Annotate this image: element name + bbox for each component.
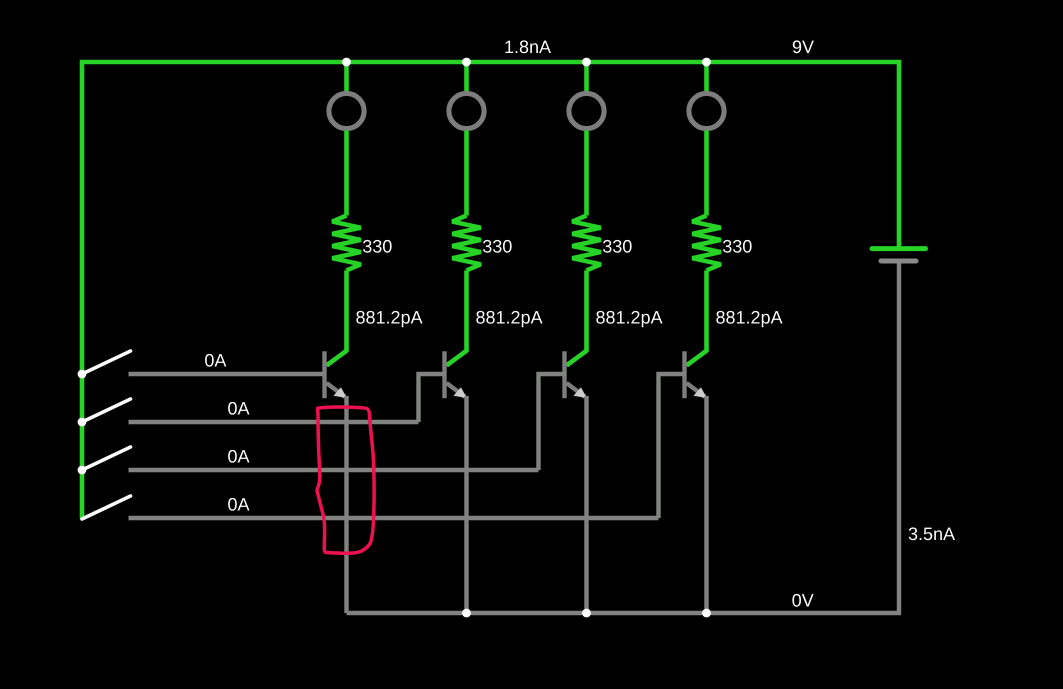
battery B1 9V long plate <box>872 246 926 251</box>
label current col2 881.2pA <box>476 311 542 327</box>
wire collector column 3 top <box>584 62 589 93</box>
junction top rail node col3 <box>582 58 591 67</box>
transistor Q1 base bar <box>322 351 326 398</box>
wire top rail 9V <box>82 62 899 519</box>
wire collector column 4 top <box>704 62 709 93</box>
junction top rail node col2 <box>462 58 471 67</box>
wire emitter Q3 down to bottom rail <box>584 396 588 613</box>
label current col1 881.2pA <box>356 311 422 327</box>
junction bottom rail node col3 <box>582 609 591 618</box>
label row1 current 0A <box>205 354 226 367</box>
battery B1 short plate <box>881 259 916 264</box>
label current col4 881.2pA <box>716 311 782 327</box>
wire collector column 2 top <box>464 62 469 93</box>
wire LED D3 to resistor R3 <box>584 131 589 216</box>
transistor Q1 emitter arrow <box>334 387 347 398</box>
label voltage 0V <box>792 594 813 607</box>
junction switch S3 post <box>78 466 87 475</box>
resistor R1 330 <box>332 216 361 271</box>
wire resistor R1 to transistor Q1 collector <box>327 270 347 365</box>
junction bottom rail node col2 <box>462 609 471 618</box>
switch S4 lever <box>82 496 131 519</box>
junction bottom rail node col4 <box>702 609 711 618</box>
wire emitter Q4 down to bottom rail <box>704 396 708 613</box>
label voltage 9V <box>793 40 814 53</box>
label current 1.8nA <box>505 40 551 53</box>
label R4 value 330 <box>723 240 752 253</box>
switch S2 lever <box>82 399 131 422</box>
wire resistor R3 to transistor Q3 collector <box>567 270 587 365</box>
wire emitter Q1 down to bottom rail <box>344 396 348 613</box>
LED D3 <box>569 93 604 128</box>
wire row 2 base bus <box>129 420 419 424</box>
wire base Q4 riser <box>659 374 687 518</box>
junction top rail node col1 <box>342 58 351 67</box>
label current col3 881.2pA <box>596 311 662 327</box>
label R3 value 330 <box>603 240 632 253</box>
transistor Q4 emitter diagonal <box>687 383 706 397</box>
transistor Q1 emitter diagonal <box>327 383 346 397</box>
transistor Q2 base bar <box>442 351 446 398</box>
transistor Q4 base bar <box>682 351 686 398</box>
wire collector column 1 top <box>344 62 349 93</box>
wire resistor R2 to transistor Q2 collector <box>447 270 467 365</box>
LED D4 <box>689 93 724 128</box>
junction switch S1 post <box>78 370 87 379</box>
label current 3.5nA <box>909 527 955 540</box>
label row3 current 0A <box>228 450 249 463</box>
switch S3 lever <box>82 447 131 470</box>
wire base Q3 riser <box>539 374 567 470</box>
LED D2 <box>449 93 484 128</box>
junction top rail node col4 <box>702 58 711 67</box>
annotation red loop around Q1 emitter <box>317 407 374 553</box>
label row4 current 0A <box>228 498 249 511</box>
wire LED D4 to resistor R4 <box>704 131 709 216</box>
wire row 1 base bus <box>129 372 325 376</box>
wire base Q2 riser <box>419 374 447 422</box>
label row2 current 0A <box>228 402 249 415</box>
LED D1 <box>329 93 364 128</box>
label R1 value 330 <box>363 240 392 253</box>
label R2 value 330 <box>483 240 512 253</box>
switch S1 lever <box>82 351 131 374</box>
wire row 4 base bus <box>129 516 659 520</box>
resistor R2 330 <box>452 216 481 271</box>
transistor Q3 emitter arrow <box>574 387 587 398</box>
wire LED D2 to resistor R2 <box>464 131 469 216</box>
transistor Q4 emitter arrow <box>694 387 707 398</box>
transistor Q2 emitter arrow <box>454 387 467 398</box>
wire right side 0V from battery to bottom rail <box>347 260 900 613</box>
resistor R3 330 <box>572 216 601 271</box>
resistor R4 330 <box>692 216 721 271</box>
wire LED D1 to resistor R1 <box>344 131 349 216</box>
wire resistor R4 to transistor Q4 collector <box>687 270 707 365</box>
transistor Q2 emitter diagonal <box>447 383 466 397</box>
wire emitter Q2 down to bottom rail <box>464 396 468 613</box>
transistor Q3 base bar <box>562 351 566 398</box>
transistor Q3 emitter diagonal <box>567 383 586 397</box>
wire row 3 base bus <box>129 468 539 472</box>
junction switch S2 post <box>78 418 87 427</box>
